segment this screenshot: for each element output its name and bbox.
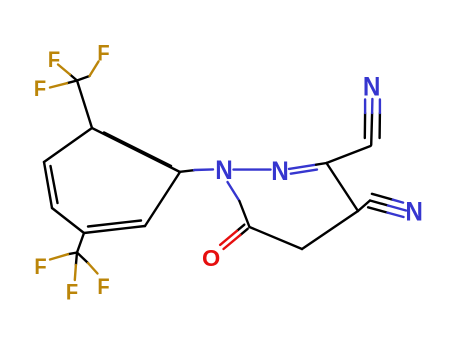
- svg-text:N: N: [405, 197, 423, 226]
- double bond C6=O: [220, 225, 248, 249]
- CF3 top group: [50, 62, 99, 129]
- benzene ring: [44, 128, 180, 233]
- svg-text:O: O: [202, 245, 220, 271]
- svg-text:N: N: [271, 157, 289, 186]
- wire stem ring to CF3 carbon: [77, 81, 92, 129]
- svg-text:F: F: [66, 281, 78, 305]
- double bond N2=C3: [289, 163, 327, 174]
- bond C3 to top nitrile carbon: [327, 146, 371, 163]
- svg-text:F: F: [34, 255, 46, 279]
- CF3 bottom group: [50, 233, 98, 280]
- bond C-Fc: [77, 253, 88, 264]
- bond N1-N2: [234, 168, 271, 170]
- bond C5-C6: [250, 227, 303, 249]
- wire ring edge C1-C2 double: [92, 128, 180, 172]
- bond C4 to bottom nitrile carbon: [358, 201, 370, 212]
- svg-text:F: F: [34, 77, 46, 101]
- bond C4-C5: [302, 211, 358, 249]
- svg-text:F: F: [48, 48, 60, 72]
- wire ring edge C3-C4 double: [44, 162, 58, 208]
- svg-text:N: N: [363, 72, 381, 101]
- wire stem ring to CF3 carbon: [77, 233, 84, 253]
- bond C3-C4: [327, 163, 359, 211]
- bond C-Fb: [76, 253, 77, 266]
- wire ring edge C4-C5: [52, 208, 84, 233]
- triple bond top C#N: [365, 99, 380, 145]
- bond C-Fa: [68, 253, 77, 255]
- bond C-F2: [77, 76, 90, 81]
- svg-text:N: N: [215, 156, 233, 185]
- bond ring C1 to N1: [179, 169, 213, 172]
- bond C6-N1: [228, 182, 250, 227]
- wire ring edge C6-C1: [145, 172, 180, 226]
- wire ring edge C2-C3: [44, 128, 92, 162]
- bond C-F1: [70, 75, 77, 81]
- bond C-F3: [67, 81, 77, 84]
- svg-text:F: F: [97, 275, 109, 299]
- triple bond bottom C#N: [368, 194, 406, 217]
- wire ring edge C5-C6 double: [84, 221, 145, 234]
- svg-text:F: F: [97, 42, 109, 66]
